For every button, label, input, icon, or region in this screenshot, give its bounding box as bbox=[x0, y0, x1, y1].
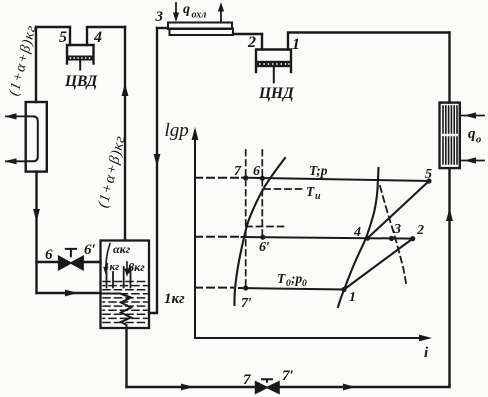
svg-text:6: 6 bbox=[45, 247, 53, 263]
wire: ЦНД port1 riser and horizontal to right corner bbox=[288, 33, 450, 50]
wire: coil feed line into vessel bbox=[37, 292, 101, 294]
state point 4 bbox=[365, 236, 370, 241]
state point 5 bbox=[426, 178, 431, 183]
svg-text:6: 6 bbox=[253, 164, 260, 179]
arrow right on bottom line (right) bbox=[343, 384, 356, 391]
svg-text:q: q bbox=[468, 126, 476, 142]
svg-text:1кг: 1кг bbox=[104, 261, 119, 273]
svg-text:7′: 7′ bbox=[241, 296, 252, 311]
svg-text:2: 2 bbox=[247, 34, 256, 51]
wire: evaporator bottom pipe to bottom line bbox=[448, 168, 450, 385]
svg-text:ЦВД: ЦВД bbox=[64, 73, 99, 90]
ЦВД piston dots bbox=[70, 57, 91, 59]
wire: bottom line valve 7' to right corner bbox=[279, 385, 450, 387]
svg-text:1кг: 1кг bbox=[164, 291, 185, 307]
bottom isobar solid To;po bbox=[239, 288, 344, 290]
wire: ЦВД port4 riser and horizontal to suction line bbox=[87, 27, 125, 45]
svg-text:5: 5 bbox=[425, 167, 432, 182]
small arrow down into suction mouth bbox=[126, 262, 128, 270]
svg-text:7′: 7′ bbox=[282, 368, 294, 384]
compressor ЦВД cylinder bbox=[67, 45, 94, 64]
axis i bbox=[195, 337, 421, 339]
saturated liquid curve bbox=[234, 158, 285, 305]
arrow right on coil feed bbox=[65, 290, 78, 297]
dashed vertical through 7 bbox=[245, 150, 247, 288]
state point 6 bbox=[260, 176, 265, 181]
wire: valve 6' outlet to vessel wall bbox=[83, 261, 100, 263]
svg-text:6′: 6′ bbox=[84, 242, 96, 258]
throttle valve 7-7' bowtie bbox=[256, 382, 267, 393]
svg-text:o: o bbox=[476, 135, 481, 146]
intercooler 3 upper shell bbox=[168, 23, 232, 30]
wire: condenser top pipe bbox=[35, 27, 37, 102]
svg-text:2: 2 bbox=[416, 223, 424, 238]
ЦВД piston band bbox=[68, 56, 93, 61]
svg-text:5: 5 bbox=[59, 29, 67, 46]
svg-text:i: i bbox=[424, 345, 429, 361]
vessel internal coil bbox=[101, 294, 132, 329]
evaporator q_o inlet arrow bottom bbox=[460, 160, 484, 162]
middle isobar solid bbox=[242, 237, 413, 239]
bottom isobar dashed part bbox=[195, 287, 233, 289]
evaporator coil hatch top band bbox=[443, 106, 457, 164]
vessel liquid hatch bbox=[103, 282, 147, 323]
state point 6' bbox=[260, 235, 265, 240]
vessel suction pipe mouth bbox=[124, 267, 131, 288]
ЦВД piston rod bbox=[79, 61, 81, 70]
intermediate vessel shell bbox=[101, 241, 150, 329]
wire: condenser bottom pipe down to branches bbox=[35, 172, 37, 293]
vessel spray arrow from valve 6' bbox=[106, 244, 110, 269]
wire: cooler right to ЦНД port2 bbox=[233, 33, 262, 35]
svg-text:βкг: βкг bbox=[127, 260, 145, 274]
compressor ЦНД cylinder bbox=[256, 50, 291, 73]
svg-text:1: 1 bbox=[349, 290, 356, 305]
svg-text:Т: Т bbox=[306, 184, 315, 199]
wire: ЦНД port2 drop pipe bbox=[261, 34, 263, 50]
svg-text:6′: 6′ bbox=[259, 240, 270, 255]
svg-text:3: 3 bbox=[393, 222, 401, 237]
svg-text:0: 0 bbox=[302, 279, 307, 289]
svg-text:lgp: lgp bbox=[165, 120, 189, 141]
arrow right on bottom line (left) bbox=[181, 384, 194, 391]
svg-text:;p: ;p bbox=[291, 271, 302, 286]
svg-text:T;p: T;p bbox=[309, 163, 328, 178]
svg-text:7: 7 bbox=[234, 164, 242, 179]
throttle valve 6-6' bowtie bbox=[59, 256, 71, 269]
wire: top-left horizontal condenser to ЦВД port 5 bbox=[36, 26, 70, 28]
svg-text:Т: Т bbox=[277, 271, 286, 286]
svg-text:4: 4 bbox=[93, 29, 102, 46]
ЦНД piston band bbox=[257, 61, 290, 67]
svg-text:3: 3 bbox=[155, 9, 164, 25]
svg-text:4: 4 bbox=[353, 225, 361, 240]
top isobar dashed part bbox=[195, 177, 242, 179]
svg-text:охл: охл bbox=[192, 10, 207, 21]
wire: vessel bottom pipe bbox=[125, 328, 127, 387]
condenser inner water tube bbox=[26, 116, 38, 161]
condenser water arrow top bbox=[6, 115, 26, 117]
dashed vertical through 6 bbox=[261, 150, 263, 237]
svg-text:αкг: αкг bbox=[113, 242, 131, 256]
ЦНД piston dots bbox=[259, 63, 290, 65]
arrow down into cooler (q охл in) bbox=[175, 3, 177, 14]
arrow down on cooler downpipe bbox=[154, 154, 161, 167]
arrow up out of cooler bbox=[220, 12, 222, 21]
saturated vapour curve bbox=[338, 168, 379, 307]
vessel small pipe mouth left bbox=[107, 272, 114, 288]
svg-text:1: 1 bbox=[292, 36, 300, 53]
ЦНД piston rod bbox=[273, 67, 275, 82]
state point 1 bbox=[341, 287, 346, 292]
svg-text:u: u bbox=[315, 191, 321, 202]
state point 7' bbox=[243, 285, 248, 290]
wire: branch to throttle valve 6 bbox=[37, 261, 59, 263]
condenser shell bbox=[26, 102, 47, 172]
condenser water arrow bottom bbox=[6, 160, 26, 162]
svg-text:q: q bbox=[183, 2, 190, 17]
wire: cooler left connection bbox=[157, 27, 168, 29]
dashed horizontal below 7 bbox=[246, 226, 285, 228]
arrow up below evaporator bbox=[446, 208, 453, 221]
svg-text:(1+α+β)кг: (1+α+β)кг bbox=[95, 134, 128, 210]
dashed curve right branch bbox=[380, 186, 406, 283]
middle isobar dashed part bbox=[195, 236, 239, 238]
axis lg p bbox=[194, 138, 196, 338]
top isobar solid T;p bbox=[242, 178, 429, 181]
dashed isotherm Тu bbox=[264, 188, 305, 190]
state point 2 bbox=[410, 236, 415, 241]
wire: right vertical from corner down to evaporator bbox=[448, 33, 450, 103]
wire: cooler downpipe to vessel (1кг) bbox=[149, 28, 157, 313]
valve 7 stem bbox=[262, 379, 272, 382]
state point 3 bbox=[389, 236, 394, 241]
evaporator q_o inlet arrow top bbox=[460, 115, 484, 117]
evaporator shell bbox=[440, 103, 460, 169]
wire: ЦВД suction line from intermediate vessel (1+α+β)кг bbox=[124, 27, 126, 240]
isentrope 1-2 bbox=[344, 239, 413, 290]
state point 7 bbox=[243, 175, 248, 180]
wire: bottom line to valve 7 bbox=[127, 386, 256, 388]
svg-text:7: 7 bbox=[243, 372, 251, 388]
valve 6 stem bbox=[66, 249, 76, 256]
arrow down on condenser outlet bbox=[33, 209, 40, 222]
svg-text:(1+α+β)кг: (1+α+β)кг bbox=[6, 23, 40, 97]
arrow up on suction line bbox=[122, 83, 129, 96]
isentrope 4-5 bbox=[368, 181, 430, 238]
wire: ЦВД port5 drop pipe bbox=[69, 27, 71, 45]
intercooler 3 lower shell bbox=[170, 29, 234, 36]
svg-text:ЦНД: ЦНД bbox=[258, 85, 295, 102]
